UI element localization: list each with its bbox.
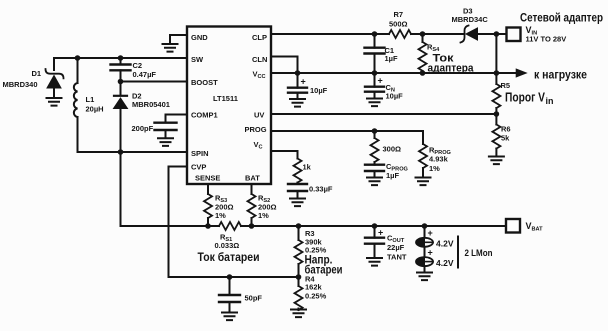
resistor R7 500 ohm xyxy=(389,10,411,38)
svg-text:1µF: 1µF xyxy=(386,171,399,180)
wire CVP down to feedback node xyxy=(169,167,188,278)
capacitor 0.33uF xyxy=(288,184,333,198)
svg-text:0.33µF: 0.33µF xyxy=(309,185,333,194)
capacitor COUT 22uF TANT xyxy=(365,226,407,262)
wire COMP1 to 200pF xyxy=(166,115,188,123)
op-amp U1 LT1511 charger IC xyxy=(187,27,271,185)
svg-text:162k: 162k xyxy=(305,283,323,292)
capacitor CPROG 1uF xyxy=(365,162,408,180)
svg-text:LT1511: LT1511 xyxy=(213,94,238,103)
bracket 2 LMon xyxy=(458,237,493,268)
wire feedback node row xyxy=(169,276,299,278)
svg-text:200pF: 200pF xyxy=(132,124,154,133)
wire SPIN row xyxy=(78,151,188,153)
svg-text:к нагрузке: к нагрузке xyxy=(534,68,587,82)
wire D2 branch down to battery-current rail xyxy=(120,152,122,226)
wire CLP row xyxy=(271,33,389,35)
svg-text:D1: D1 xyxy=(32,69,42,78)
resistor RS3 200 ohm xyxy=(204,184,234,226)
ground (CN) xyxy=(367,99,382,107)
svg-text:2 LMon: 2 LMon xyxy=(465,248,493,258)
svg-text:20µH: 20µH xyxy=(86,105,104,114)
svg-text:R6: R6 xyxy=(501,125,511,134)
svg-text:Сетевой адаптер: Сетевой адаптер xyxy=(520,11,603,25)
diode D3 MBRD34C xyxy=(452,7,489,43)
battery cell 4.2V (upper) xyxy=(416,226,454,249)
svg-text:CLP: CLP xyxy=(252,33,267,42)
battery cell 4.2V (lower) xyxy=(416,247,454,272)
wire Vc to 1k xyxy=(271,151,298,159)
svg-text:VBAT: VBAT xyxy=(526,221,544,233)
svg-text:500Ω: 500Ω xyxy=(389,20,408,29)
ground (R6) xyxy=(489,157,504,165)
wire GND pin to ground xyxy=(170,35,187,43)
svg-text:MBR05401: MBR05401 xyxy=(132,100,170,109)
terminal Vin square xyxy=(507,11,604,44)
svg-text:1%: 1% xyxy=(215,211,226,220)
ground (10uF) xyxy=(290,99,305,107)
svg-text:CVP: CVP xyxy=(191,163,206,172)
svg-text:10µF: 10µF xyxy=(386,92,404,101)
ground (0.33uF) xyxy=(290,199,305,207)
svg-text:Порог V: Порог V xyxy=(505,90,545,105)
resistor R5 xyxy=(492,73,553,114)
svg-text:VC: VC xyxy=(254,140,263,151)
svg-text:4.2V: 4.2V xyxy=(436,239,454,249)
svg-text:R7: R7 xyxy=(394,10,404,19)
wire UV row xyxy=(271,113,496,115)
resistor RS4 adapter-current sense xyxy=(419,34,475,75)
svg-text:1µF: 1µF xyxy=(385,54,398,63)
capacitor CN 10uF xyxy=(365,73,403,101)
terminal VBAT square xyxy=(506,219,543,233)
capacitor 10uF (Vcc) xyxy=(288,73,328,98)
svg-text:+: + xyxy=(428,248,433,258)
ground (50pF) xyxy=(222,313,237,321)
capacitor C1 1uF xyxy=(365,34,398,73)
svg-text:0.25%: 0.25% xyxy=(305,292,327,301)
svg-text:TANT: TANT xyxy=(387,253,407,262)
node junction dots xyxy=(75,31,500,280)
wire Vcc row with load arrow xyxy=(271,72,516,74)
wire battery rail left xyxy=(121,225,220,227)
svg-text:4.93k: 4.93k xyxy=(429,155,449,164)
svg-text:GND: GND xyxy=(191,33,208,42)
wire R7 to D3 xyxy=(411,33,463,35)
capacitor 200pF (COMP1) xyxy=(132,123,177,138)
wire BOOST row xyxy=(121,81,188,83)
resistor R6 5k xyxy=(492,114,510,156)
svg-text:10µF: 10µF xyxy=(310,86,328,95)
svg-text:+: + xyxy=(301,77,306,87)
svg-text:0.47µF: 0.47µF xyxy=(133,70,157,79)
svg-text:in: in xyxy=(546,96,554,106)
resistor R4 162k xyxy=(295,275,327,311)
svg-text:5k: 5k xyxy=(501,134,510,143)
svg-text:1k: 1k xyxy=(303,163,312,172)
svg-text:COMP1: COMP1 xyxy=(191,111,218,120)
capacitor 50pF xyxy=(219,277,262,312)
svg-text:VCC: VCC xyxy=(253,70,266,81)
resistor 1k xyxy=(294,159,312,185)
inductor L1 20uH xyxy=(74,58,104,152)
svg-text:0.033Ω: 0.033Ω xyxy=(215,241,240,250)
svg-text:L1: L1 xyxy=(86,95,95,104)
svg-text:BOOST: BOOST xyxy=(191,78,218,87)
svg-text:1%: 1% xyxy=(429,164,440,173)
ground (R4) xyxy=(291,310,306,318)
wire CLN to Vcc row xyxy=(271,57,298,74)
wire Vin vertical down xyxy=(495,34,497,73)
wire PROG row xyxy=(271,130,423,132)
svg-text:+: + xyxy=(378,228,383,238)
resistor RS1 0.033 ohm xyxy=(198,222,260,264)
resistor 300 ohm xyxy=(371,131,402,165)
svg-text:MBRD34C: MBRD34C xyxy=(452,15,489,24)
wire D3 to Vin terminal xyxy=(478,33,507,35)
ground (D1) xyxy=(47,98,62,106)
ground (battery) xyxy=(417,273,432,281)
arrow to load xyxy=(517,68,588,82)
svg-text:+: + xyxy=(378,76,383,86)
diode D2 MBR05401 xyxy=(114,82,170,153)
ground (200pF) xyxy=(158,138,173,146)
diode D1 MBRD340 xyxy=(3,58,64,97)
svg-text:MBRD340: MBRD340 xyxy=(3,80,38,89)
svg-text:4.2V: 4.2V xyxy=(436,258,454,268)
svg-text:300Ω: 300Ω xyxy=(383,145,402,154)
capacitor C2 0.47uF xyxy=(111,58,157,82)
ground (CPROG) xyxy=(367,178,382,186)
svg-text:1%: 1% xyxy=(258,211,269,220)
svg-text:CLN: CLN xyxy=(252,55,267,64)
resistor RPROG 4.93k xyxy=(419,131,451,177)
ground (GND pin) xyxy=(163,44,178,52)
svg-text:PROG: PROG xyxy=(245,125,267,134)
svg-text:Ток батареи: Ток батареи xyxy=(198,250,260,264)
svg-text:SPIN: SPIN xyxy=(191,149,209,158)
ground (RPROG) xyxy=(416,178,431,186)
wire SW row xyxy=(54,57,187,59)
svg-text:BAT: BAT xyxy=(245,174,260,183)
svg-text:+: + xyxy=(428,228,433,238)
wire battery rail right to VBAT xyxy=(241,225,506,227)
resistor RS2 200 ohm xyxy=(248,184,277,226)
svg-text:UV: UV xyxy=(254,111,264,120)
resistor R3 390k xyxy=(295,226,343,277)
svg-text:SW: SW xyxy=(191,55,204,64)
svg-text:RS4: RS4 xyxy=(427,43,440,54)
svg-text:11V TO 28V: 11V TO 28V xyxy=(526,35,567,44)
ground (COUT) xyxy=(367,258,382,266)
svg-text:50pF: 50pF xyxy=(245,294,263,303)
svg-text:22µF: 22µF xyxy=(387,243,405,252)
svg-text:C2: C2 xyxy=(133,61,143,70)
svg-text:SENSE: SENSE xyxy=(195,174,220,183)
